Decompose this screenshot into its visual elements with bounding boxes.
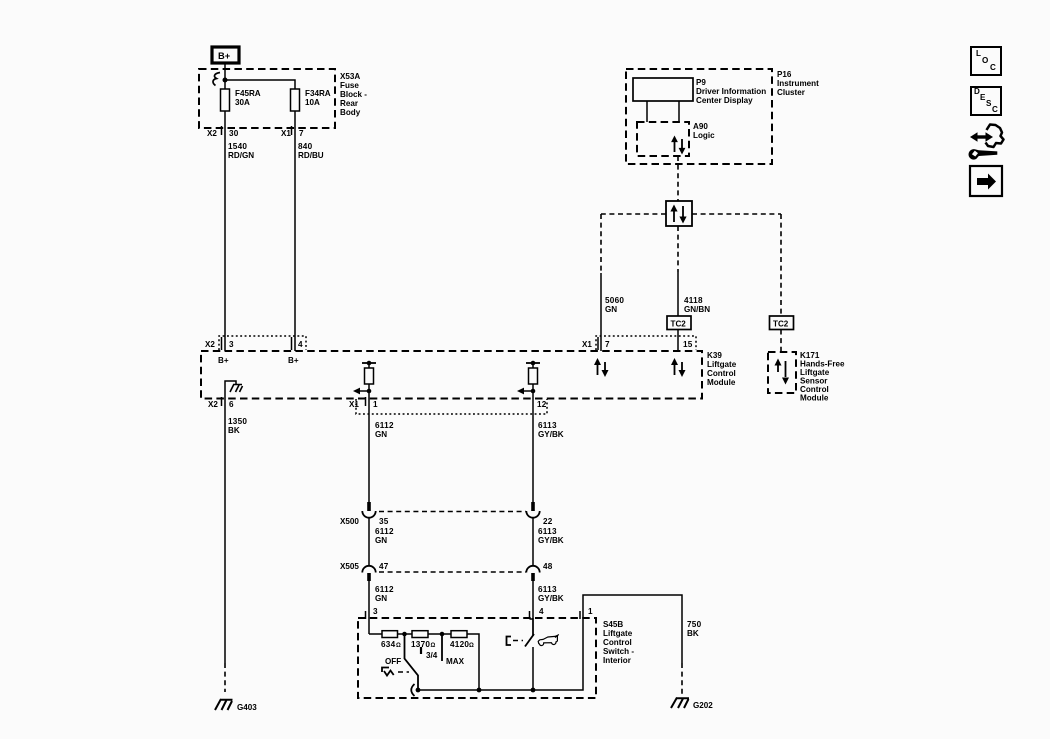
svg-text:7: 7 [299,129,304,138]
svg-text:F45RA: F45RA [235,89,261,98]
svg-text:3/4: 3/4 [426,651,438,660]
svg-text:Ω: Ω [396,643,401,649]
svg-text:P16: P16 [777,70,792,79]
svg-text:X505: X505 [340,562,359,571]
svg-text:Body: Body [340,108,361,117]
svg-text:Rear: Rear [340,99,359,108]
svg-text:O: O [982,56,988,65]
svg-text:7: 7 [605,340,610,349]
svg-text:BK: BK [687,629,699,638]
svg-text:Block -: Block - [340,90,367,99]
svg-text:TC2: TC2 [671,320,687,329]
svg-text:Logic: Logic [693,131,715,140]
svg-text:5060: 5060 [605,296,624,305]
svg-text:K39: K39 [707,351,722,360]
svg-text:4120: 4120 [450,640,469,649]
svg-text:4: 4 [298,340,303,349]
svg-text:634: 634 [381,640,396,649]
svg-text:X1: X1 [281,129,291,138]
svg-text:Interior: Interior [603,656,632,665]
svg-text:A90: A90 [693,122,708,131]
svg-text:GN: GN [605,305,617,314]
svg-text:B+: B+ [288,356,299,365]
svg-text:L: L [976,49,981,58]
svg-text:X2: X2 [208,400,218,409]
svg-text:OFF: OFF [385,657,401,666]
svg-text:10A: 10A [305,98,320,107]
svg-text:Module: Module [707,378,736,387]
svg-text:GN: GN [375,536,387,545]
svg-text:1540: 1540 [228,142,247,151]
svg-text:GN: GN [375,594,387,603]
svg-text:Driver Information: Driver Information [696,87,766,96]
svg-text:G403: G403 [237,703,257,712]
svg-text:6: 6 [229,400,234,409]
svg-text:X500: X500 [340,517,359,526]
svg-text:Ω: Ω [431,643,436,649]
svg-text:47: 47 [379,562,389,571]
svg-text:Ω: Ω [469,643,474,649]
svg-text:1: 1 [588,607,593,616]
svg-text:4: 4 [539,607,544,616]
svg-text:GN/BN: GN/BN [684,305,710,314]
svg-text:MAX: MAX [446,657,465,666]
svg-text:G202: G202 [693,701,713,710]
svg-text:GY/BK: GY/BK [538,430,564,439]
svg-text:6112: 6112 [375,421,394,430]
svg-text:3: 3 [373,607,378,616]
svg-text:Liftgate: Liftgate [603,629,633,638]
svg-text:30A: 30A [235,98,250,107]
svg-text:C: C [990,63,996,72]
svg-text:RD/BU: RD/BU [298,151,324,160]
svg-text:GY/BK: GY/BK [538,536,564,545]
svg-text:6113: 6113 [538,527,557,536]
svg-text:12: 12 [537,400,547,409]
svg-text:1350: 1350 [228,417,247,426]
svg-text:6112: 6112 [375,585,394,594]
svg-text:Switch -: Switch - [603,647,634,656]
svg-text:6112: 6112 [375,527,394,536]
svg-text:F34RA: F34RA [305,89,331,98]
svg-text:X2: X2 [205,340,215,349]
svg-text:Instrument: Instrument [777,79,819,88]
svg-text:3: 3 [229,340,234,349]
svg-text:Control: Control [707,369,736,378]
svg-text:BK: BK [228,426,240,435]
svg-text:Center Display: Center Display [696,96,753,105]
svg-text:TC2: TC2 [773,320,789,329]
svg-text:22: 22 [543,517,553,526]
svg-text:750: 750 [687,620,702,629]
svg-text:X53A: X53A [340,72,360,81]
svg-text:RD/GN: RD/GN [228,151,254,160]
svg-text:6113: 6113 [538,421,557,430]
svg-text:X1: X1 [582,340,592,349]
svg-text:4118: 4118 [684,296,703,305]
svg-text:GN: GN [375,430,387,439]
svg-text:X2: X2 [207,129,217,138]
svg-text:B+: B+ [218,51,231,61]
svg-text:1: 1 [373,400,378,409]
svg-text:B+: B+ [218,356,229,365]
svg-text:6113: 6113 [538,585,557,594]
svg-text:S45B: S45B [603,620,623,629]
svg-text:48: 48 [543,562,553,571]
svg-text:GY/BK: GY/BK [538,594,564,603]
svg-text:Control: Control [603,638,632,647]
svg-text:35: 35 [379,517,389,526]
svg-text:15: 15 [683,340,693,349]
svg-text:Fuse: Fuse [340,81,359,90]
svg-text:C: C [992,105,998,114]
svg-text:X1: X1 [349,400,359,409]
svg-text:P9: P9 [696,78,706,87]
svg-text:30: 30 [229,129,239,138]
svg-text:Liftgate: Liftgate [707,360,737,369]
svg-text:Module: Module [800,394,829,403]
svg-text:840: 840 [298,142,313,151]
svg-text:Cluster: Cluster [777,88,806,97]
